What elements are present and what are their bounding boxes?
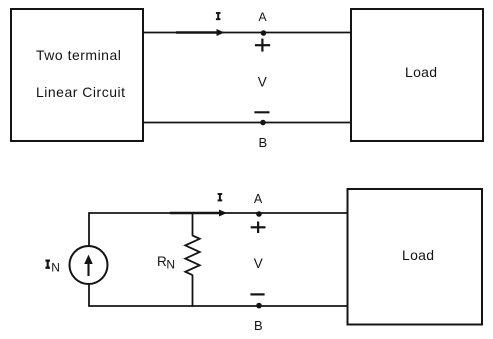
polarity minus (top circuit) xyxy=(254,111,269,113)
current source IN xyxy=(70,246,108,284)
wire: bottom circuit, left vertical upper segment xyxy=(88,212,90,246)
label B (top circuit) xyxy=(258,135,267,150)
svg-text:B: B xyxy=(254,318,263,333)
node B (top circuit) xyxy=(260,120,266,126)
resistor RN xyxy=(185,212,199,307)
wire: top circuit, upper wire from source box to load xyxy=(143,32,351,34)
svg-text:V: V xyxy=(258,74,267,89)
load box (bottom circuit) xyxy=(348,189,483,325)
wire: bottom circuit, upper wire xyxy=(89,212,348,214)
label V (top circuit) xyxy=(258,74,267,89)
svg-text:N: N xyxy=(166,258,175,272)
svg-text:Load: Load xyxy=(405,64,437,80)
label A (bottom circuit) xyxy=(254,192,263,206)
polarity plus (bottom circuit) xyxy=(251,222,266,234)
load box (top circuit) xyxy=(351,9,483,141)
polarity minus (bottom circuit) xyxy=(250,293,264,295)
node A (bottom circuit) xyxy=(256,211,262,217)
wire: top circuit, lower wire from source box to load xyxy=(143,122,351,124)
svg-text:N: N xyxy=(51,261,60,275)
svg-text:A: A xyxy=(258,10,266,24)
svg-text:V: V xyxy=(254,256,263,271)
label I (top circuit) xyxy=(216,12,221,20)
wire: bottom circuit, left vertical lower segment xyxy=(88,284,90,307)
label IN xyxy=(45,260,59,275)
label I (bottom circuit) xyxy=(218,193,223,201)
label A (top circuit) xyxy=(258,10,266,24)
label RN xyxy=(157,254,175,272)
svg-text:Linear Circuit: Linear Circuit xyxy=(36,84,125,100)
source box: Two terminal Linear Circuit xyxy=(11,9,143,141)
svg-text:Load: Load xyxy=(402,247,434,263)
wire: bottom circuit, lower wire xyxy=(89,305,348,307)
current arrow I (bottom circuit) xyxy=(170,210,227,217)
current arrow I (top circuit) xyxy=(176,29,225,36)
label V (bottom circuit) xyxy=(254,256,263,271)
svg-text:A: A xyxy=(254,192,263,206)
node A (top circuit) xyxy=(261,30,267,36)
polarity plus (top circuit) xyxy=(255,39,270,52)
label B (bottom circuit) xyxy=(254,318,263,333)
node B (bottom circuit) xyxy=(256,303,262,309)
svg-text:B: B xyxy=(258,135,267,150)
svg-text:Two terminal: Two terminal xyxy=(36,47,121,63)
